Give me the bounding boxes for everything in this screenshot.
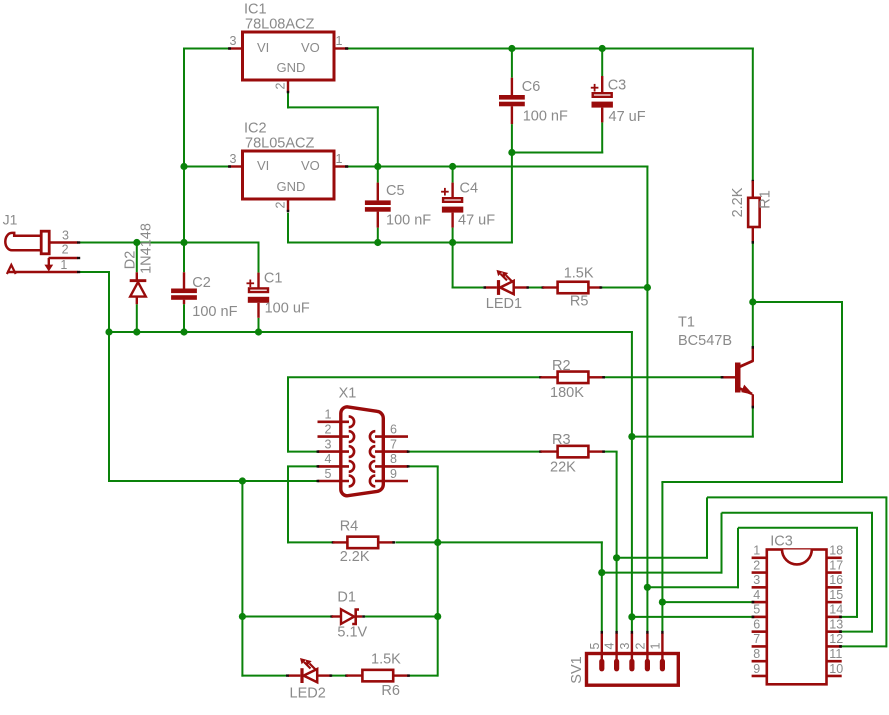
svg-text:78L05ACZ: 78L05ACZ: [245, 136, 314, 152]
svg-text:3: 3: [230, 152, 237, 166]
svg-text:2.2K: 2.2K: [730, 187, 746, 217]
svg-text:2: 2: [753, 558, 760, 572]
svg-text:C3: C3: [608, 78, 627, 94]
svg-text:C1: C1: [264, 271, 283, 287]
svg-text:LED1: LED1: [486, 296, 522, 312]
svg-text:78L08ACZ: 78L08ACZ: [245, 17, 314, 33]
svg-text:LED2: LED2: [290, 685, 326, 701]
svg-text:1: 1: [753, 544, 760, 558]
svg-text:1: 1: [648, 642, 662, 649]
svg-text:16: 16: [829, 573, 843, 587]
svg-text:8: 8: [753, 647, 760, 661]
svg-text:R5: R5: [570, 294, 589, 310]
svg-text:C2: C2: [192, 275, 211, 291]
svg-text:1.5K: 1.5K: [564, 265, 594, 281]
svg-text:IC2: IC2: [244, 120, 267, 136]
svg-text:15: 15: [829, 588, 843, 602]
svg-text:2: 2: [633, 642, 647, 649]
svg-text:100 uF: 100 uF: [265, 301, 310, 317]
svg-text:4: 4: [603, 642, 617, 649]
svg-text:18: 18: [829, 544, 843, 558]
svg-text:14: 14: [829, 603, 843, 617]
svg-text:1: 1: [325, 408, 332, 422]
svg-text:180K: 180K: [550, 385, 584, 401]
svg-text:5.1V: 5.1V: [337, 625, 367, 641]
svg-text:7: 7: [753, 632, 760, 646]
svg-text:5: 5: [325, 467, 332, 481]
svg-text:1: 1: [60, 258, 67, 272]
svg-text:R2: R2: [552, 358, 571, 374]
svg-text:47 uF: 47 uF: [458, 213, 495, 229]
svg-text:R4: R4: [340, 519, 359, 535]
svg-text:VI: VI: [257, 40, 269, 55]
svg-text:R6: R6: [381, 683, 400, 699]
svg-text:IC3: IC3: [770, 534, 793, 550]
svg-text:VI: VI: [257, 158, 269, 173]
svg-text:3: 3: [62, 229, 69, 243]
svg-text:T1: T1: [678, 315, 695, 331]
svg-text:IC1: IC1: [244, 1, 267, 17]
svg-text:9: 9: [390, 467, 397, 481]
svg-text:9: 9: [753, 662, 760, 676]
svg-text:2: 2: [62, 243, 69, 257]
svg-text:R1: R1: [757, 190, 773, 209]
svg-text:13: 13: [829, 617, 843, 631]
svg-text:D2: D2: [122, 251, 138, 270]
svg-text:5: 5: [588, 642, 602, 649]
svg-text:5: 5: [753, 603, 760, 617]
svg-text:VO: VO: [301, 40, 320, 55]
svg-text:3: 3: [325, 437, 332, 451]
svg-text:4: 4: [753, 588, 760, 602]
svg-text:J1: J1: [3, 212, 18, 228]
svg-text:C4: C4: [460, 181, 479, 197]
svg-text:7: 7: [390, 437, 397, 451]
svg-text:100 nF: 100 nF: [523, 109, 568, 125]
svg-text:X1: X1: [339, 385, 357, 401]
svg-text:100 nF: 100 nF: [192, 304, 237, 320]
svg-text:8: 8: [390, 452, 397, 466]
svg-text:2: 2: [273, 201, 287, 208]
svg-text:1N4148: 1N4148: [138, 223, 154, 274]
svg-text:1: 1: [336, 34, 343, 48]
svg-text:R3: R3: [552, 432, 571, 448]
svg-text:10: 10: [829, 662, 843, 676]
svg-text:22K: 22K: [550, 459, 576, 475]
svg-text:VO: VO: [301, 158, 320, 173]
svg-text:D1: D1: [337, 590, 356, 606]
svg-text:2.2K: 2.2K: [340, 549, 370, 565]
svg-text:C5: C5: [386, 183, 405, 199]
svg-text:C6: C6: [522, 79, 541, 95]
svg-text:12: 12: [829, 632, 843, 646]
svg-text:47 uF: 47 uF: [609, 109, 646, 125]
svg-text:1.5K: 1.5K: [371, 652, 401, 668]
svg-text:100 nF: 100 nF: [386, 213, 431, 229]
svg-text:2: 2: [273, 82, 287, 89]
svg-text:GND: GND: [277, 60, 306, 75]
svg-text:1: 1: [336, 152, 343, 166]
svg-text:3: 3: [230, 34, 237, 48]
svg-text:3: 3: [618, 642, 632, 649]
svg-text:BC547B: BC547B: [678, 333, 732, 349]
svg-text:6: 6: [390, 422, 397, 436]
svg-text:11: 11: [829, 647, 842, 661]
svg-text:SV1: SV1: [569, 656, 585, 683]
svg-text:17: 17: [829, 558, 843, 572]
svg-text:3: 3: [753, 573, 760, 587]
svg-text:GND: GND: [277, 179, 306, 194]
svg-text:6: 6: [753, 617, 760, 631]
svg-text:2: 2: [325, 422, 332, 436]
svg-text:4: 4: [325, 452, 332, 466]
